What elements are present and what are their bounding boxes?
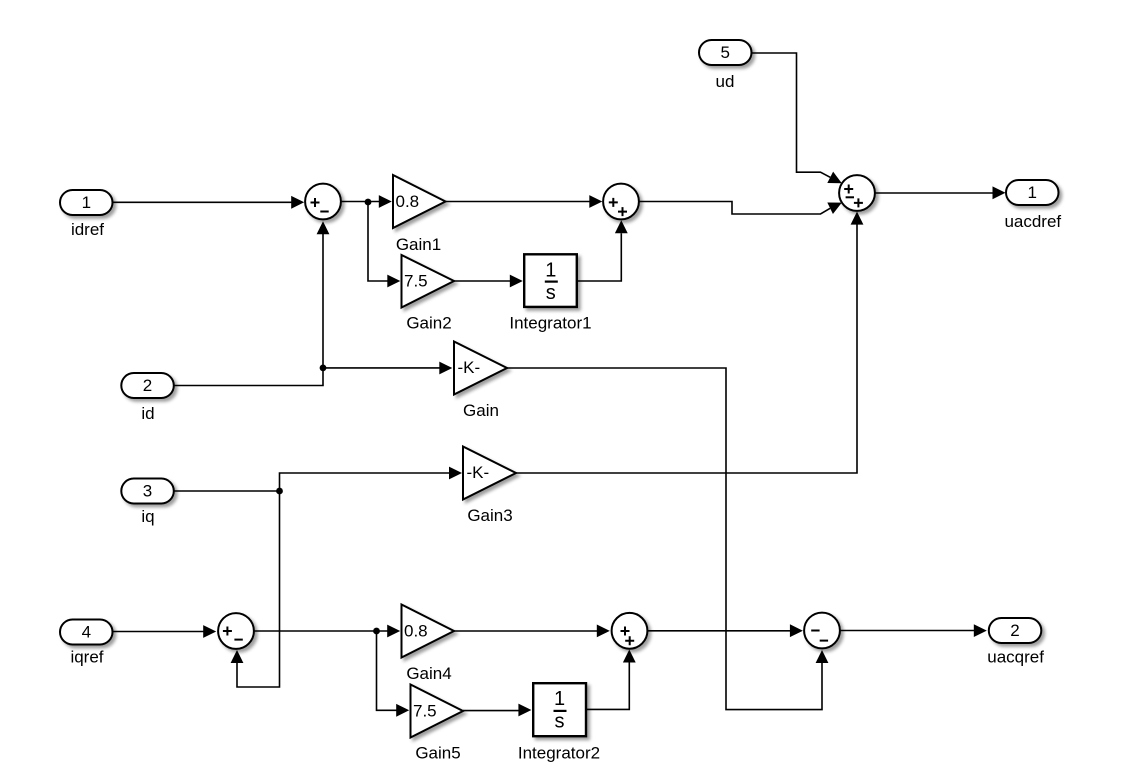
svg-text:Gain5: Gain5 xyxy=(415,744,460,763)
svg-text:1: 1 xyxy=(1027,183,1036,202)
svg-text:Gain: Gain xyxy=(463,401,499,420)
svg-text:iqref: iqref xyxy=(70,648,103,667)
svg-text:Gain1: Gain1 xyxy=(396,235,441,254)
svg-text:5: 5 xyxy=(720,43,729,62)
svg-text:idref: idref xyxy=(71,220,104,239)
svg-text:Gain3: Gain3 xyxy=(467,506,512,525)
svg-text:3: 3 xyxy=(143,481,152,500)
svg-text:Gain2: Gain2 xyxy=(406,314,451,333)
svg-text:Integrator2: Integrator2 xyxy=(518,744,600,763)
svg-text:iq: iq xyxy=(141,507,154,526)
svg-text:Gain4: Gain4 xyxy=(406,664,451,683)
svg-text:uacdref: uacdref xyxy=(1004,212,1061,231)
svg-text:1: 1 xyxy=(545,260,556,282)
svg-text:0.8: 0.8 xyxy=(396,192,420,211)
svg-text:4: 4 xyxy=(82,622,91,641)
svg-text:Integrator1: Integrator1 xyxy=(509,314,591,333)
svg-text:1: 1 xyxy=(82,193,91,212)
svg-text:ud: ud xyxy=(716,72,735,91)
svg-text:7.5: 7.5 xyxy=(413,701,437,720)
svg-text:id: id xyxy=(141,404,154,423)
svg-text:-K-: -K- xyxy=(467,463,490,482)
svg-text:2: 2 xyxy=(143,376,152,395)
svg-text:uacqref: uacqref xyxy=(987,648,1044,667)
svg-text:-K-: -K- xyxy=(458,358,481,377)
svg-text:s: s xyxy=(546,282,556,304)
svg-text:0.8: 0.8 xyxy=(404,621,428,640)
svg-text:2: 2 xyxy=(1010,621,1019,640)
svg-text:1: 1 xyxy=(554,688,565,710)
svg-text:7.5: 7.5 xyxy=(404,271,428,290)
svg-text:s: s xyxy=(555,711,565,733)
